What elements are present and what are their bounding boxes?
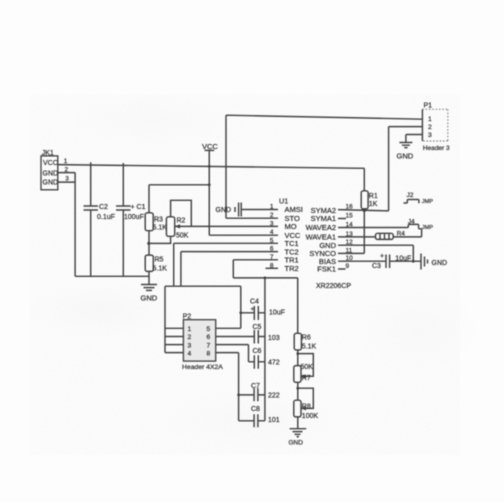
svg-text:1: 1 (270, 204, 274, 211)
svg-text:GND: GND (289, 440, 304, 447)
svg-text:0.1uF: 0.1uF (97, 214, 115, 221)
svg-text:XR2206CP: XR2206CP (316, 283, 351, 290)
svg-text:1K: 1K (369, 201, 378, 208)
svg-text:P1: P1 (424, 103, 433, 110)
svg-text:J4: J4 (408, 219, 415, 226)
svg-text:+ C1: + C1 (131, 204, 146, 211)
svg-text:R2: R2 (177, 218, 186, 225)
svg-text:3: 3 (65, 175, 69, 182)
svg-text:13: 13 (346, 231, 354, 238)
svg-text:6: 6 (207, 334, 211, 341)
svg-text:3: 3 (428, 132, 432, 139)
svg-text:100uF: 100uF (124, 214, 144, 221)
svg-text:C2: C2 (99, 204, 108, 211)
svg-text:2: 2 (188, 334, 192, 341)
svg-text:100K: 100K (302, 413, 319, 420)
svg-text:2: 2 (428, 124, 432, 131)
svg-text:7: 7 (207, 342, 211, 349)
svg-text:14: 14 (346, 222, 354, 229)
svg-text:MO: MO (285, 222, 297, 231)
svg-text:5.1K: 5.1K (153, 225, 168, 232)
svg-text:SYMA1: SYMA1 (311, 214, 336, 223)
svg-text:C4: C4 (250, 299, 259, 306)
svg-text:P2: P2 (183, 314, 192, 321)
svg-text:GND: GND (397, 152, 414, 161)
svg-text:5: 5 (207, 326, 211, 333)
svg-text:VCC: VCC (43, 160, 58, 167)
svg-text:TR2: TR2 (285, 264, 299, 273)
svg-text:R8: R8 (302, 404, 311, 411)
svg-text:JMP: JMP (422, 225, 433, 231)
svg-text:Header 4X2A: Header 4X2A (182, 364, 223, 371)
svg-text:U1: U1 (279, 197, 288, 206)
svg-text:8: 8 (270, 262, 274, 269)
svg-text:101: 101 (268, 417, 280, 424)
svg-text:1: 1 (428, 116, 432, 123)
svg-text:8: 8 (207, 350, 211, 357)
svg-text:+: + (251, 306, 255, 313)
svg-text:472: 472 (268, 360, 280, 367)
svg-text:5: 5 (270, 237, 274, 244)
svg-text:50K: 50K (176, 233, 189, 240)
svg-text:11: 11 (346, 247, 353, 254)
svg-text:4: 4 (188, 350, 192, 357)
svg-text:GND: GND (432, 260, 448, 267)
svg-text:C5: C5 (253, 324, 262, 331)
svg-text:4: 4 (270, 229, 274, 236)
svg-text:16: 16 (346, 204, 354, 211)
svg-text:15: 15 (346, 213, 354, 220)
svg-text:12: 12 (346, 239, 354, 246)
svg-text:R3: R3 (154, 217, 163, 224)
svg-text:C3: C3 (372, 263, 381, 270)
svg-text:R7: R7 (302, 375, 311, 382)
svg-text:C7: C7 (251, 383, 260, 390)
svg-text:1: 1 (188, 326, 192, 333)
svg-text:3: 3 (188, 342, 192, 349)
svg-text:5.1K: 5.1K (153, 266, 168, 273)
svg-text:222: 222 (268, 393, 280, 400)
svg-text:AMSI: AMSI (285, 205, 303, 214)
svg-text:10uF: 10uF (269, 310, 285, 317)
svg-text:C8: C8 (251, 406, 260, 413)
svg-text:+: + (380, 253, 384, 260)
svg-text:GND: GND (43, 170, 59, 177)
svg-text:5.1K: 5.1K (302, 344, 317, 351)
svg-text:R6: R6 (302, 335, 311, 342)
svg-text:6: 6 (270, 246, 274, 253)
svg-text:WAVEA2: WAVEA2 (306, 223, 336, 232)
svg-text:C6: C6 (253, 348, 262, 355)
svg-text:2: 2 (270, 212, 274, 219)
svg-text:GND: GND (216, 207, 232, 214)
svg-text:Header 3: Header 3 (423, 145, 450, 152)
svg-text:FSK1: FSK1 (317, 265, 336, 274)
svg-text:1: 1 (64, 158, 68, 165)
svg-text:R1: R1 (369, 193, 378, 200)
svg-text:J2: J2 (407, 192, 414, 199)
svg-text:7: 7 (270, 254, 274, 261)
svg-text:JK1: JK1 (42, 150, 54, 157)
svg-text:R5: R5 (155, 257, 164, 264)
svg-text:50K: 50K (301, 364, 314, 371)
svg-text:2: 2 (65, 166, 69, 173)
svg-text:JMP: JMP (422, 199, 433, 205)
svg-text:103: 103 (268, 335, 280, 342)
svg-text:10uF: 10uF (395, 256, 411, 263)
svg-text:9: 9 (346, 263, 350, 270)
svg-text:GND: GND (43, 179, 59, 186)
svg-text:R4: R4 (397, 231, 406, 238)
svg-text:10: 10 (346, 255, 354, 262)
svg-text:3: 3 (270, 220, 274, 227)
svg-text:GND: GND (141, 294, 158, 303)
svg-text:VCC: VCC (202, 142, 218, 151)
